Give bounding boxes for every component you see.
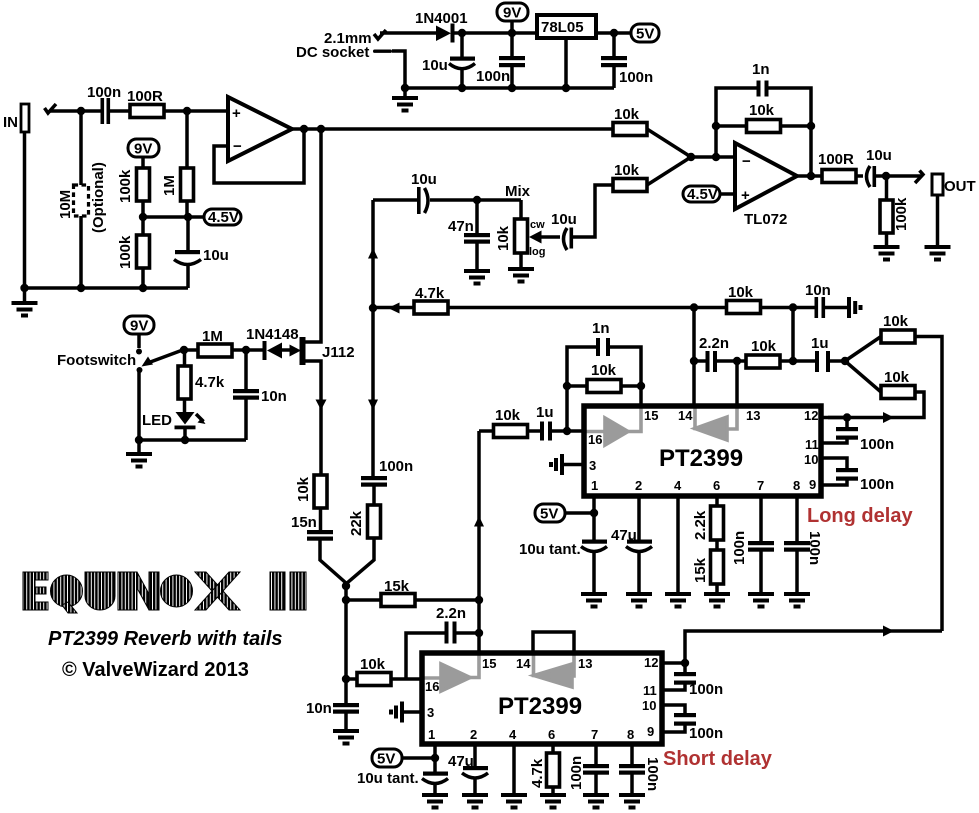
node 4.7k feedback junction — [369, 304, 377, 312]
svg-text:47n: 47n — [448, 218, 474, 235]
ground (10n short) — [333, 729, 359, 746]
input jack J-IN — [21, 104, 29, 132]
node 10k junction — [342, 675, 350, 683]
IC U4 PT2399 (long delay) gray internals — [584, 408, 737, 445]
node fan-out junction — [841, 357, 849, 365]
node feedback bus junctions — [690, 303, 698, 311]
svg-text:PT2399: PT2399 — [659, 445, 743, 472]
wire input riser to 15k node — [477, 431, 481, 600]
logo letter U — [85, 572, 115, 610]
svg-text:10u: 10u — [203, 247, 229, 264]
svg-text:TL072: TL072 — [744, 211, 787, 228]
svg-text:OUT: OUT — [944, 178, 976, 195]
wire pin13 riser — [735, 361, 739, 406]
svg-text:10u: 10u — [866, 147, 892, 164]
arrow up (wet return) — [368, 248, 378, 259]
node pin12 junction (short) — [681, 659, 689, 667]
pin labels U5 — [425, 655, 658, 742]
DC socket tip chevron — [374, 30, 386, 39]
wire junction drop — [344, 586, 348, 703]
wire pin4 to ground (long) — [676, 496, 680, 592]
node input/10M junction — [77, 107, 85, 115]
resistor 4.7k (pin6 short) — [529, 744, 560, 793]
resistor 15k (pin6 long) — [692, 550, 724, 592]
resistor 1M (bias to input) — [161, 111, 194, 217]
svg-text:11: 11 — [805, 437, 819, 452]
regulator U3 78L05 — [537, 15, 596, 38]
arrow up (long input) — [474, 516, 484, 527]
wire feedback loop U1A — [214, 129, 304, 183]
potentiometer VR1 10k Mix — [495, 200, 546, 267]
svg-text:(Optional): (Optional) — [90, 162, 107, 233]
5V label oval (long) — [535, 504, 594, 523]
svg-text:22k: 22k — [348, 510, 365, 536]
svg-text:10n: 10n — [805, 282, 831, 299]
capacitor 10u tant (long supply) — [519, 540, 607, 593]
svg-text:1n: 1n — [592, 320, 610, 337]
node pin13 junction — [733, 357, 741, 365]
svg-text:100n: 100n — [619, 69, 653, 86]
wire 100R to op-amp — [164, 109, 228, 113]
arrow right (return bus) — [883, 626, 894, 637]
resistor 100k (output pulldown) — [880, 176, 910, 245]
wire pin4 to ground (short) — [512, 744, 516, 793]
svg-text:11: 11 — [643, 683, 657, 698]
svg-text:4.7k: 4.7k — [529, 758, 546, 788]
resistor 100R — [127, 88, 164, 118]
wire wet return riser — [371, 200, 375, 476]
svg-text:1: 1 — [428, 727, 435, 742]
svg-text:log: log — [529, 246, 546, 258]
capacitor 100n (pins 12-11) — [821, 418, 894, 454]
ground (pin8 long) — [784, 592, 810, 609]
switch SW1 arm — [136, 349, 184, 374]
svg-text:14: 14 — [516, 656, 531, 671]
capacitor 100n (pin7 short) — [568, 744, 609, 793]
resistor 22k — [347, 505, 381, 586]
wire TL072 output — [797, 174, 822, 178]
capacitor 100n (9V rail) — [476, 33, 525, 88]
ground (pin7 long) — [748, 592, 774, 609]
resistor 10k (LPF) — [746, 338, 815, 368]
svg-text:−: − — [742, 153, 751, 170]
svg-text:100R: 100R — [818, 151, 854, 168]
node 1M top junction — [183, 107, 191, 115]
wire DC tip to diode — [380, 31, 436, 35]
svg-text:1: 1 — [591, 478, 598, 493]
wire pins 14-13 bridge (short) — [533, 632, 574, 653]
4.5V label oval — [204, 209, 241, 226]
svg-text:9V: 9V — [503, 5, 521, 22]
wire 78L05 out to 5V — [596, 31, 632, 35]
resistor 10k (feedback) — [716, 102, 811, 133]
svg-text:2.2n: 2.2n — [436, 605, 466, 622]
9V bias label oval — [128, 139, 159, 168]
arrow down (to 100n) — [368, 400, 378, 411]
svg-text:10n: 10n — [306, 700, 332, 717]
wire diode to 78L05 — [454, 31, 537, 35]
svg-text:+: + — [232, 105, 241, 122]
svg-text:100n: 100n — [379, 458, 413, 475]
ground (pin8 short) — [619, 793, 645, 810]
IC U4 PT2399 (long delay) body — [584, 406, 821, 496]
node 2.2n junction — [475, 629, 483, 637]
svg-text:10k: 10k — [614, 162, 640, 179]
wire 100n to 100R — [110, 109, 130, 113]
ground (pin1 long) — [581, 592, 607, 609]
svg-text:4: 4 — [674, 478, 682, 493]
resistor 10k (long chip feedback) — [567, 362, 641, 393]
svg-text:IN: IN — [3, 114, 18, 131]
wire node to 1M — [184, 348, 198, 352]
svg-text:10u: 10u — [411, 171, 437, 188]
svg-text:Mix: Mix — [505, 183, 531, 200]
svg-text:1n: 1n — [752, 61, 770, 78]
resistor 100k (lower bias) — [117, 235, 150, 288]
svg-text:−: − — [233, 138, 242, 155]
svg-text:100R: 100R — [127, 88, 163, 105]
logo EQUINOX II — [23, 572, 306, 613]
resistor 2.2k (pin6 long) — [692, 496, 724, 550]
capacitor 47n (treble cut) — [448, 200, 490, 269]
svg-text:10k: 10k — [495, 225, 512, 251]
svg-text:2: 2 — [635, 478, 642, 493]
capacitor 10u (wiper coupling) — [551, 185, 614, 250]
svg-text:J112: J112 — [322, 344, 355, 361]
svg-text:2.2k: 2.2k — [692, 510, 709, 540]
svg-text:10u: 10u — [551, 211, 577, 228]
wire 4.7k bus to LPF drop — [791, 308, 795, 362]
node short-delay input junction — [475, 596, 483, 604]
svg-text:5V: 5V — [636, 26, 654, 43]
node pin14/2.2n junction — [690, 357, 698, 365]
capacitor 10u (wet coupling) — [373, 171, 521, 214]
wire 1M to diode — [232, 348, 264, 352]
svg-text:Long delay: Long delay — [807, 505, 913, 527]
capacitor 15n — [291, 514, 346, 586]
wire footswitch ground rail — [139, 438, 246, 442]
capacitor 10n (to ground) — [306, 700, 359, 729]
wire input to 100n — [50, 109, 101, 113]
svg-text:PT2399: PT2399 — [498, 693, 582, 720]
diode D1 1N4001 — [415, 10, 468, 43]
logo letter O — [161, 575, 193, 607]
capacitor 100n (pins 10-9 short) — [662, 705, 723, 742]
svg-text:10k: 10k — [883, 313, 909, 330]
svg-text:5V: 5V — [540, 506, 558, 523]
svg-text:10k: 10k — [495, 407, 521, 424]
svg-text:4.5V: 4.5V — [208, 209, 239, 226]
node 5V junction (long) — [590, 509, 598, 517]
wire pin14 riser — [692, 308, 696, 407]
wire switch lower contact to ground — [137, 369, 141, 440]
svg-text:7: 7 — [757, 478, 764, 493]
node feedback junctions — [712, 122, 720, 130]
capacitor 100n (input) — [87, 84, 121, 124]
LED D3 — [142, 412, 206, 440]
ground (pin6 long) — [704, 592, 730, 609]
svg-text:9V: 9V — [134, 141, 152, 158]
svg-text:12: 12 — [644, 655, 658, 670]
resistor 10k (long delay input) — [479, 407, 540, 438]
node 5V junction — [610, 29, 618, 37]
svg-text:3: 3 — [427, 705, 434, 720]
4.5V label oval (TL072) — [683, 186, 735, 203]
capacitor 100n (pins 10-9) — [821, 458, 894, 493]
svg-text:10k: 10k — [884, 369, 910, 386]
ground (output jack) — [925, 245, 951, 262]
node mix top junction — [473, 196, 481, 204]
capacitor 100n (pins 12-11 short) — [662, 663, 723, 698]
svg-text:Footswitch: Footswitch — [57, 352, 136, 369]
ground (pin6 short) — [540, 793, 566, 810]
svg-text:10u tant.: 10u tant. — [357, 770, 419, 787]
capacitor 10n (feedback HF cut) — [805, 282, 847, 318]
wire 78L05 ground pin — [564, 38, 568, 88]
svg-text:100n: 100n — [731, 531, 748, 565]
capacitor 47u (pin2 long) — [611, 496, 652, 592]
node rail junctions — [77, 284, 85, 292]
9V footswitch label oval — [124, 316, 154, 348]
svg-text:15: 15 — [482, 656, 496, 671]
node 1M/10n junction — [242, 346, 250, 354]
resistor 1M (gate bleed) — [198, 328, 232, 357]
ground (footswitch) — [126, 440, 152, 469]
svg-text:8: 8 — [793, 478, 800, 493]
5V label oval (short) — [372, 749, 435, 768]
wire feedback bus — [448, 306, 815, 310]
pin 3 terminator (long) — [549, 454, 584, 475]
wire op-amp output bus — [292, 127, 614, 131]
svg-text:10k: 10k — [295, 476, 312, 502]
svg-text:10M: 10M — [57, 190, 74, 219]
svg-text:10k: 10k — [728, 284, 754, 301]
svg-text:100n: 100n — [860, 436, 894, 453]
resistor 15k — [346, 578, 479, 607]
input tip chevron — [45, 104, 57, 113]
logo letter E — [23, 572, 48, 610]
node 5V junction (short) — [431, 754, 439, 762]
svg-text:1N4001: 1N4001 — [415, 10, 468, 27]
node feedback junctions (long) — [563, 382, 571, 390]
svg-text:13: 13 — [746, 408, 760, 423]
node 9V rail junction — [458, 29, 466, 37]
wire input ground rail — [23, 132, 27, 288]
logo letter X — [195, 572, 240, 610]
svg-text:Short delay: Short delay — [663, 748, 773, 770]
svg-text:16: 16 — [425, 679, 439, 694]
capacitor 2.2n (LPF) — [694, 335, 746, 372]
op-amp U1A (input buffer) — [228, 97, 292, 161]
svg-text:100n: 100n — [689, 725, 723, 742]
node 9V/100n junction — [508, 29, 516, 37]
svg-text:15k: 15k — [692, 557, 709, 583]
svg-text:LED: LED — [142, 412, 172, 429]
logo letter N — [127, 572, 159, 610]
pin labels U4 — [588, 408, 819, 493]
capacitor 1u (delay out coupling) — [811, 335, 845, 372]
ground (right-facing, 10n) — [847, 297, 863, 318]
wire bias to 4.5V oval — [143, 215, 204, 219]
node feedback tap junction — [712, 153, 720, 161]
svg-text:100k: 100k — [117, 235, 134, 269]
svg-text:© ValveWizard 2013: © ValveWizard 2013 — [62, 659, 249, 681]
arrow left (feedback return) — [388, 303, 400, 314]
svg-text:100k: 100k — [117, 169, 134, 203]
svg-text:cw: cw — [530, 219, 545, 231]
logo letter Q — [51, 575, 83, 607]
logo letter I — [118, 572, 127, 610]
capacitor 10u (bias decoupling) — [174, 217, 229, 288]
svg-text:1u: 1u — [811, 335, 829, 352]
ground (power supply) — [392, 88, 418, 113]
svg-text:10k: 10k — [591, 362, 617, 379]
5V supply label oval — [631, 24, 659, 43]
capacitor 100n (5V rail) — [601, 33, 653, 88]
svg-text:4.7k: 4.7k — [195, 374, 225, 391]
wire power ground rail — [405, 86, 614, 90]
ground (Mix pot) — [508, 267, 534, 284]
svg-text:10u tant.: 10u tant. — [519, 541, 581, 558]
svg-text:+: + — [741, 187, 750, 204]
svg-text:10k: 10k — [751, 338, 777, 355]
svg-text:16: 16 — [588, 432, 602, 447]
svg-text:10u: 10u — [422, 57, 448, 74]
capacitor 100n (pin7 long) — [731, 496, 774, 592]
node output/feedback junction — [807, 172, 815, 180]
9V supply label oval — [497, 3, 528, 33]
wire pin15 riser (short) — [477, 600, 481, 653]
wire pin12 stub — [821, 416, 847, 420]
label 2.1mm DC socket — [296, 30, 372, 61]
capacitor 100n (pin8 long) — [784, 496, 823, 592]
svg-text:2.2n: 2.2n — [699, 335, 729, 352]
svg-text:15: 15 — [644, 408, 658, 423]
svg-text:9V: 9V — [130, 318, 148, 335]
svg-text:100k: 100k — [893, 197, 910, 231]
svg-text:9: 9 — [647, 724, 654, 739]
svg-text:1M: 1M — [161, 175, 178, 196]
resistor 10M (optional, dashed) — [57, 111, 107, 288]
wire short delay return bus — [685, 631, 942, 663]
capacitor 1n (feedback) — [716, 61, 811, 176]
svg-text:15n: 15n — [291, 514, 317, 531]
resistor 10k (J112 source) — [295, 475, 327, 530]
capacitor 47u (pin2 short) — [448, 744, 488, 793]
svg-text:12: 12 — [804, 408, 818, 423]
resistor 100R (output) — [818, 151, 863, 183]
resistor 4.7k (LED dropper) — [178, 350, 225, 413]
svg-text:1N4148: 1N4148 — [246, 326, 299, 343]
svg-text:100n: 100n — [476, 68, 510, 85]
capacitor 10u (output coupling) — [866, 147, 921, 187]
ground (100k) — [874, 245, 900, 262]
IC U5 PT2399 (short delay) gray internals — [422, 655, 574, 691]
resistor 10k (to long delay input) — [828, 361, 924, 418]
ground (47n) — [464, 269, 490, 286]
IC U5 PT2399 (short delay) body — [422, 653, 662, 744]
svg-text:7: 7 — [591, 727, 598, 742]
svg-text:100n: 100n — [860, 476, 894, 493]
svg-text:PT2399 Reverb with tails: PT2399 Reverb with tails — [48, 628, 283, 650]
svg-text:4.5V: 4.5V — [687, 186, 718, 203]
node 4.5V bias junction — [139, 213, 147, 221]
svg-text:100n: 100n — [568, 756, 585, 790]
node 1u junction — [789, 357, 797, 365]
wiper arrow Mix pot — [529, 231, 560, 244]
ground (pin7 short) — [583, 793, 609, 810]
svg-text:9: 9 — [809, 477, 816, 492]
DC socket sleeve contact — [373, 50, 405, 89]
capacitor 10n (switch debounce) — [233, 350, 287, 440]
node 15k junction — [342, 596, 350, 604]
svg-text:DC socket: DC socket — [296, 44, 369, 61]
wire pin12 stub (short) — [662, 661, 685, 665]
svg-text:8: 8 — [627, 727, 634, 742]
capacitor 1n (long chip feedback) — [567, 320, 641, 431]
node summing junction — [687, 153, 695, 161]
logo numeral II — [270, 572, 285, 610]
svg-text:3: 3 — [589, 458, 596, 473]
node 100k junction — [882, 172, 890, 180]
output jack J-OUT — [932, 174, 976, 245]
svg-text:10: 10 — [804, 452, 818, 467]
node op-amp output junctions — [300, 125, 308, 133]
resistor 10k (dry summing) — [613, 106, 691, 157]
resistor 10k (to mixer bus) — [845, 313, 942, 631]
svg-text:6: 6 — [548, 727, 555, 742]
svg-text:100n: 100n — [644, 757, 661, 791]
node switch/1M junction — [180, 346, 188, 354]
svg-text:2: 2 — [470, 727, 477, 742]
svg-text:78L05: 78L05 — [541, 19, 584, 36]
svg-text:10k: 10k — [360, 656, 386, 673]
wire bias node — [141, 201, 145, 235]
svg-text:4: 4 — [509, 727, 517, 742]
resistor 100k (upper bias) — [117, 168, 150, 203]
capacitor 2.2n (short chip feedback) — [406, 605, 479, 679]
output tip chevron — [915, 171, 923, 184]
node mixer junction — [342, 582, 350, 590]
svg-text:6: 6 — [713, 478, 720, 493]
capacitor 100n (to 22k) — [361, 458, 413, 505]
capacitor 1u (long delay input) — [536, 404, 584, 441]
pin 3 terminator (short) — [389, 702, 422, 723]
svg-text:10n: 10n — [261, 388, 287, 405]
svg-text:10k: 10k — [749, 102, 775, 119]
op-amp U2 TL072 — [735, 143, 797, 228]
arrow right (into pin12 bus) — [883, 412, 894, 423]
capacitor 100n (pin8 short) — [619, 744, 661, 793]
transistor Q1 J112 gate arrow — [290, 345, 302, 357]
ground (pin1 short) — [422, 793, 448, 810]
ground (pin2 short) — [462, 793, 488, 810]
svg-text:13: 13 — [578, 656, 592, 671]
resistor 10k (short delay input) — [346, 656, 422, 686]
svg-text:1u: 1u — [536, 404, 554, 421]
svg-text:14: 14 — [678, 408, 693, 423]
transistor Q1 J112 — [300, 129, 355, 475]
capacitor 10u (reservoir) — [422, 33, 475, 88]
wire pin1 — [592, 496, 596, 540]
resistor 4.7k (feedback) — [373, 285, 448, 314]
wire summing node to inverting input — [691, 155, 735, 159]
svg-text:5V: 5V — [377, 751, 395, 768]
node pin12 junction — [843, 413, 851, 421]
ground (input) — [12, 288, 38, 318]
wire pin1 (short) — [433, 744, 437, 772]
svg-text:100n: 100n — [87, 84, 121, 101]
